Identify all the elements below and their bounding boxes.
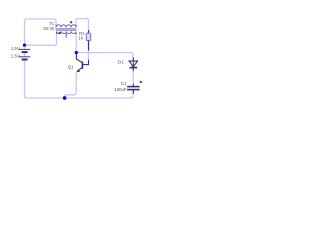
svg-text:Q1: Q1 bbox=[68, 65, 74, 70]
Q1 emitter lead bbox=[77, 68, 82, 71]
capacitor C1 bottom lead bbox=[132, 90, 134, 93]
wire: R1 to Q1 base (crosses collector wire, no junction) bbox=[88, 51, 90, 61]
svg-text:D1: D1 bbox=[118, 60, 124, 65]
capacitor C1 plates bbox=[127, 87, 140, 90]
wire: Q1 emitter down to ground rail bbox=[65, 72, 77, 97]
diode D1 inner anode line bbox=[132, 61, 134, 68]
resistor R1 body bbox=[86, 33, 90, 40]
Q1 base lead from R1 bbox=[83, 60, 88, 65]
svg-text:1.5V: 1.5V bbox=[11, 54, 20, 59]
wire: transformer primary right to R1 top bbox=[76, 19, 89, 31]
transformer T1 secondary centre-tap stub bbox=[65, 32, 67, 38]
diode D1 anode lead bbox=[132, 58, 134, 62]
transistor Q1 (NPN, mirrored, base at right) bbox=[76, 54, 88, 71]
node: ground rail junction dot bbox=[63, 96, 67, 100]
wire: battery stack vertical segments bbox=[25, 47, 63, 99]
Q1 collector lead bbox=[76, 54, 82, 63]
capacitor C1 polarity + mark bbox=[140, 81, 143, 84]
Q1 emitter arrowhead bbox=[76, 69, 80, 72]
capacitor C1 top lead bbox=[132, 84, 134, 86]
transformer T1 core lines bbox=[56, 29, 77, 30]
svg-text:100uF: 100uF bbox=[114, 87, 127, 92]
battery V2 1.5V (bottom cell) bbox=[19, 57, 30, 60]
node: battery + junction dot bbox=[23, 44, 26, 47]
svg-text:60:40: 60:40 bbox=[43, 26, 55, 31]
wire: D1 to C1 bbox=[132, 71, 134, 84]
wire: collector node to diode D1 bbox=[78, 53, 133, 58]
diode D1 triangle bbox=[129, 60, 137, 67]
wire: battery plus to transformer primary left (top-left loop) bbox=[25, 19, 57, 45]
node: collector junction dot bbox=[75, 51, 78, 54]
transformer T1 secondary winding (bottom arcs) bbox=[57, 31, 77, 34]
wire: transformer secondary right lead down to collector node bbox=[75, 35, 77, 51]
battery V1 1.5V (top cell) bbox=[19, 49, 30, 52]
transformer polarity + mark (secondary left) bbox=[58, 32, 61, 35]
resistor R1 bottom lead bbox=[88, 41, 90, 51]
svg-text:C1: C1 bbox=[121, 81, 127, 86]
wire: battery junction to transformer secondary left bbox=[26, 34, 57, 45]
transformer polarity + mark (primary right) bbox=[70, 21, 73, 24]
resistor R1 top lead bbox=[88, 30, 90, 33]
Q1 base bar bbox=[81, 62, 83, 69]
diode D1 cathode lead bbox=[132, 68, 134, 71]
svg-text:1.5V: 1.5V bbox=[11, 46, 20, 51]
wire: bottom ground rail right section bbox=[67, 94, 134, 98]
diode D1 cathode bar bbox=[130, 67, 138, 69]
svg-text:1K: 1K bbox=[78, 35, 83, 40]
transformer T1 primary winding (top arcs) bbox=[56, 24, 76, 27]
